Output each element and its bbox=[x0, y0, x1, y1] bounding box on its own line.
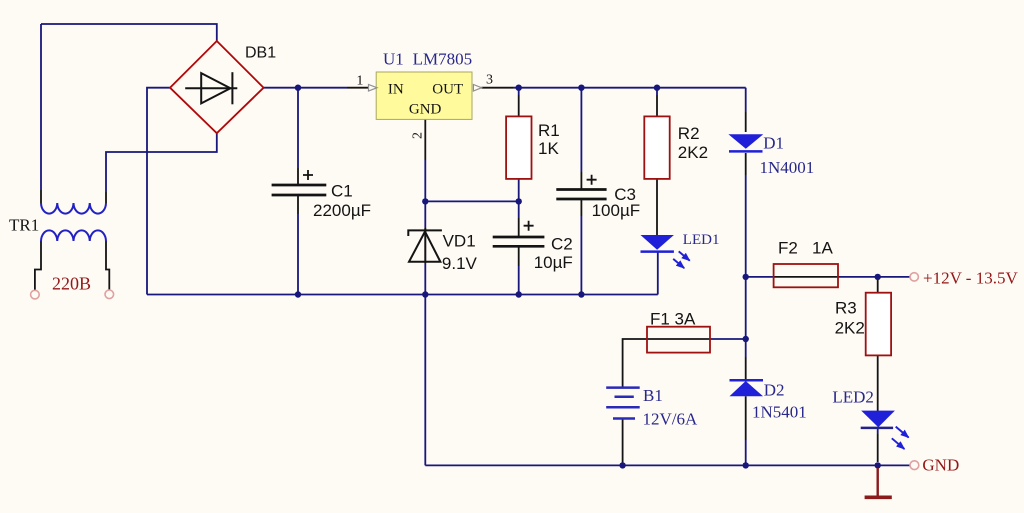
svg-text:C1: C1 bbox=[331, 182, 353, 201]
svg-text:12V/6A: 12V/6A bbox=[643, 409, 699, 428]
svg-text:100µF: 100µF bbox=[592, 201, 641, 220]
svg-text:U1: U1 bbox=[383, 50, 404, 69]
svg-text:10µF: 10µF bbox=[534, 253, 573, 272]
svg-text:2K2: 2K2 bbox=[678, 143, 708, 162]
svg-text:D2: D2 bbox=[764, 381, 785, 400]
svg-text:OUT: OUT bbox=[432, 82, 463, 98]
svg-text:2K2: 2K2 bbox=[835, 319, 865, 338]
svg-text:1A: 1A bbox=[812, 239, 833, 258]
svg-text:1: 1 bbox=[356, 73, 363, 88]
svg-text:R2: R2 bbox=[678, 124, 700, 143]
svg-text:LM7805: LM7805 bbox=[413, 50, 473, 69]
svg-text:+12V - 13.5V: +12V - 13.5V bbox=[923, 269, 1018, 288]
svg-text:GND: GND bbox=[409, 102, 442, 118]
svg-text:1N5401: 1N5401 bbox=[752, 403, 807, 422]
svg-text:DB1: DB1 bbox=[245, 45, 276, 62]
svg-text:3: 3 bbox=[486, 73, 493, 88]
svg-text:C2: C2 bbox=[551, 235, 573, 254]
svg-text:F2: F2 bbox=[778, 239, 798, 258]
svg-text:1N4001: 1N4001 bbox=[760, 158, 815, 177]
svg-text:2200µF: 2200µF bbox=[313, 201, 371, 220]
svg-text:LED2: LED2 bbox=[832, 388, 874, 407]
svg-text:TR1: TR1 bbox=[9, 215, 39, 234]
svg-text:GND: GND bbox=[922, 456, 959, 475]
svg-text:IN: IN bbox=[388, 82, 404, 98]
svg-text:220B: 220B bbox=[52, 274, 91, 294]
svg-text:9.1V: 9.1V bbox=[442, 254, 478, 273]
svg-text:R1: R1 bbox=[538, 121, 560, 140]
svg-text:VD1: VD1 bbox=[443, 231, 476, 250]
svg-text:LED1: LED1 bbox=[683, 232, 720, 248]
svg-text:F1 3A: F1 3A bbox=[650, 310, 696, 329]
svg-text:1K: 1K bbox=[538, 139, 559, 158]
svg-text:2: 2 bbox=[411, 132, 426, 139]
svg-text:R3: R3 bbox=[835, 299, 857, 318]
svg-text:B1: B1 bbox=[643, 386, 663, 405]
svg-text:D1: D1 bbox=[763, 134, 784, 153]
